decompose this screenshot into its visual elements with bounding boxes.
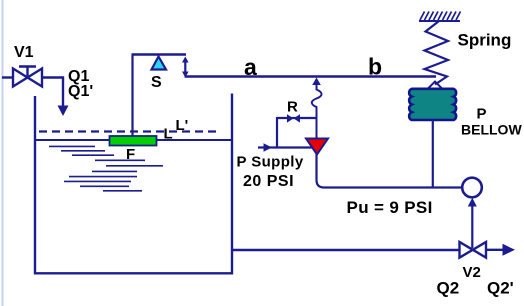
pivot on bellows	[428, 82, 443, 90]
arrow Q1 into tank	[58, 106, 69, 117]
output wire to bellows and actuator	[317, 153, 462, 188]
nozzle link squiggle	[312, 85, 322, 140]
nozzle	[306, 139, 328, 155]
actuator circle	[462, 178, 482, 198]
svg-text:S: S	[151, 74, 162, 91]
svg-text:V1: V1	[14, 44, 34, 61]
svg-text:Q2': Q2'	[487, 279, 514, 298]
svg-text:F: F	[126, 146, 135, 163]
bellows P	[409, 89, 456, 120]
svg-text:20 PSI: 20 PSI	[243, 173, 294, 190]
svg-text:Q2: Q2	[437, 279, 460, 298]
wire V1 outlet	[42, 78, 63, 108]
beam link top	[132, 53, 187, 55]
restrictor R	[287, 114, 300, 122]
outlet arrow	[503, 244, 516, 256]
wire V1 inlet	[2, 76, 13, 78]
page edge line	[2, 0, 4, 306]
svg-text:P Supply: P Supply	[237, 154, 304, 171]
wire V2 outlet	[486, 249, 504, 251]
float rod	[131, 55, 133, 137]
spring	[425, 21, 449, 85]
pipe tank to V2	[232, 249, 460, 251]
valve V1	[13, 67, 42, 87]
svg-text:P: P	[477, 106, 487, 123]
svg-text:Q1': Q1'	[68, 83, 93, 100]
supply wire	[258, 146, 313, 148]
svg-text:V2: V2	[463, 264, 481, 281]
flapper beam	[185, 75, 437, 77]
valve V2	[460, 242, 487, 258]
svg-text:b: b	[368, 54, 382, 80]
branch wire to restrictor	[277, 117, 316, 119]
water hatch lines	[49, 146, 163, 190]
svg-text:BELLOW: BELLOW	[461, 122, 522, 138]
actuator stem arrow	[471, 204, 473, 248]
supply arrow	[264, 143, 273, 151]
svg-text:R: R	[287, 99, 298, 116]
tank	[35, 94, 232, 274]
double arrow link	[182, 57, 189, 78]
branch wire down	[276, 117, 278, 149]
spring anchor hatching	[419, 12, 461, 22]
svg-text:Pu = 9 PSI: Pu = 9 PSI	[347, 198, 433, 217]
float F	[110, 136, 157, 146]
svg-text:a: a	[244, 54, 257, 80]
svg-text:L': L'	[176, 117, 189, 134]
water surface	[35, 139, 232, 141]
nozzle link arrow	[312, 78, 321, 86]
svg-text:Spring: Spring	[458, 31, 512, 50]
level line L dashed	[39, 130, 220, 132]
pivot S	[152, 57, 167, 70]
bellows output wire	[432, 120, 434, 188]
